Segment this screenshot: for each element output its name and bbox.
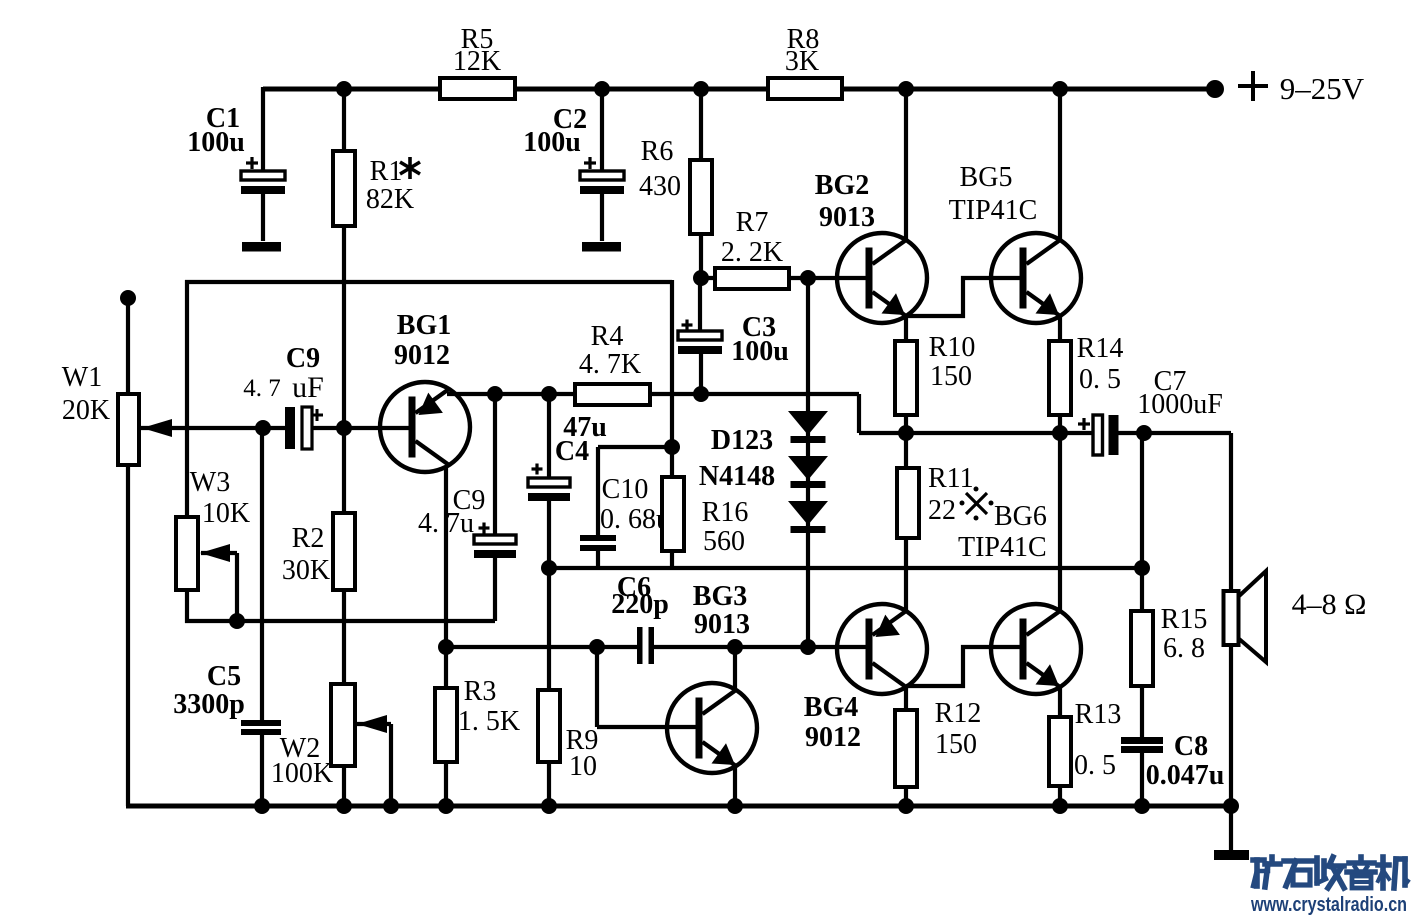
svg-text:100u: 100u — [523, 127, 581, 158]
wire R7 line to BG2 base — [701, 276, 866, 280]
label C5 value 3300p — [173, 689, 245, 720]
svg-text:www.crystalradio.cn: www.crystalradio.cn — [1250, 894, 1407, 916]
potentiometer W2 — [331, 684, 355, 766]
label R14 — [1077, 333, 1124, 364]
capacitor C5 — [241, 720, 281, 735]
svg-text:10K: 10K — [202, 498, 250, 529]
resistor R9 — [538, 690, 560, 762]
wiper arrow W3 — [200, 544, 230, 562]
wire R11 to BG4 emitter — [904, 433, 908, 612]
svg-text:82K: 82K — [366, 184, 414, 215]
label W1 — [62, 362, 102, 393]
svg-text:BG2: BG2 — [815, 170, 869, 201]
junction VAS/BG3 base — [589, 639, 605, 655]
svg-text:C8: C8 — [1174, 731, 1208, 762]
label R4 value 4.7K — [579, 349, 641, 380]
junction feedback line/C4/R9 — [541, 560, 557, 576]
wire BG4 collector to R12 — [904, 686, 908, 806]
label D123 — [711, 425, 773, 456]
label R5 — [461, 24, 494, 55]
svg-text:BG4: BG4 — [804, 692, 858, 723]
label BG5 — [960, 162, 1013, 193]
svg-text:4. 7K: 4. 7K — [579, 349, 641, 380]
label C4 — [555, 436, 589, 467]
svg-text:9012: 9012 — [394, 340, 450, 371]
label W3 value 10K — [202, 498, 250, 529]
wire input line from W1 wiper to C9 — [140, 426, 287, 430]
svg-text:R16: R16 — [702, 497, 749, 528]
svg-text:R3: R3 — [464, 676, 497, 707]
wire VAS line right — [654, 645, 866, 649]
label C6 value 220p — [611, 589, 669, 620]
junction node X/C10 — [664, 439, 680, 455]
wire C2 to ground — [600, 193, 604, 241]
label C1 value 100u — [187, 127, 245, 158]
svg-text:430: 430 — [639, 171, 681, 202]
label W2 value 100K — [271, 758, 333, 789]
label BG2 — [815, 170, 869, 201]
svg-text:12K: 12K — [453, 46, 501, 77]
junction rail/C2 — [594, 81, 610, 97]
svg-text:100u: 100u — [187, 127, 245, 158]
junction W3 wiper/feedback — [229, 613, 245, 629]
resistor R8 — [768, 78, 842, 99]
wiper arrow W1 — [142, 419, 172, 437]
junction rail/BG5 collector — [1052, 81, 1068, 97]
svg-text:9–25V: 9–25V — [1280, 71, 1365, 106]
label BG2 type 9013 — [819, 202, 875, 233]
svg-text:C5: C5 — [207, 661, 241, 692]
wire node X to C3 bottom — [672, 394, 859, 433]
ground C2 — [582, 242, 621, 252]
transistor BG2 — [837, 233, 927, 323]
svg-text:R13: R13 — [1075, 699, 1122, 730]
plus sign supply — [1238, 71, 1268, 101]
capacitor C8 — [1121, 737, 1163, 753]
svg-text:R15: R15 — [1161, 604, 1208, 635]
wire W1 bottom to ground rail — [126, 465, 130, 806]
watermark url — [1250, 894, 1407, 916]
wire W3 wiper tail — [201, 553, 237, 621]
junction emitter line/C4 — [541, 386, 557, 402]
capacitor C10 — [580, 535, 616, 551]
svg-text:150: 150 — [930, 361, 972, 392]
svg-text:1. 5K: 1. 5K — [458, 706, 520, 737]
junction ground/R13 — [1052, 798, 1068, 814]
svg-text:R1: R1 — [370, 156, 403, 187]
svg-text:BG1: BG1 — [397, 310, 451, 341]
svg-text:6. 8: 6. 8 — [1163, 633, 1205, 664]
label supply 9-25V — [1280, 71, 1365, 106]
label C10 value 0.68u — [600, 504, 670, 535]
capacitor C7 — [1078, 415, 1119, 455]
junction output rail/R14/BG6 — [1052, 425, 1068, 441]
svg-text:20K: 20K — [62, 395, 110, 426]
wire left feedback edge W3 — [185, 280, 189, 623]
wire BG6 emitter to R13 — [1058, 687, 1062, 806]
wire C10 branch — [598, 447, 672, 568]
wire VAS line left — [446, 645, 637, 649]
label R7 — [736, 207, 769, 238]
svg-text:10: 10 — [569, 751, 597, 782]
junction rail/R6 — [693, 81, 709, 97]
capacitor C2 — [580, 157, 624, 194]
wire C9 to BG1 base — [311, 426, 410, 430]
label R8 — [787, 24, 820, 55]
transistor BG1 — [380, 382, 470, 472]
label C9 input — [286, 343, 320, 374]
svg-text:100u: 100u — [731, 336, 789, 367]
label R3 — [464, 676, 497, 707]
capacitor C4 — [528, 464, 570, 502]
label W2 — [280, 733, 320, 764]
label C2 — [553, 104, 587, 135]
label C4 value 47u — [563, 412, 607, 443]
junction VAS/diodes — [800, 639, 816, 655]
label W3 — [190, 467, 230, 498]
resistor R10 — [895, 341, 917, 415]
wire BG2 emitter to BG5 base — [906, 278, 1021, 316]
resistor R11 — [897, 468, 919, 538]
label C8 value 0.047u — [1146, 760, 1225, 791]
svg-text:220p: 220p — [611, 589, 669, 620]
label C9b value 4.7u — [418, 508, 474, 539]
resistor R5 — [440, 78, 515, 99]
wire BG3 collector — [733, 647, 737, 691]
svg-text:2. 2K: 2. 2K — [721, 237, 783, 268]
svg-text:9012: 9012 — [805, 722, 861, 753]
label C9 feedback — [453, 485, 486, 516]
transistor BG3 — [667, 683, 757, 773]
svg-text:3K: 3K — [785, 46, 819, 77]
junction input/C5 — [255, 420, 271, 436]
label R6 value 430 — [639, 171, 681, 202]
svg-text:100K: 100K — [271, 758, 333, 789]
label C3 value 100u — [731, 336, 789, 367]
wire C5 branch — [260, 428, 264, 806]
label R15 — [1161, 604, 1208, 635]
svg-text:9013: 9013 — [694, 609, 750, 640]
resistor R2 — [333, 513, 355, 590]
reference mark — [960, 487, 994, 521]
svg-text:C9: C9 — [286, 343, 320, 374]
capacitor C6 — [637, 627, 654, 664]
label R8 value 3K — [785, 46, 819, 77]
label R14 value 0.5 — [1079, 364, 1121, 395]
label R7 value 2.2K — [721, 237, 783, 268]
wire BG6 collector — [1058, 433, 1062, 613]
label R13 value 0.5 — [1074, 750, 1116, 781]
wire C4-R9 column — [547, 394, 551, 806]
wire C1 to ground — [261, 193, 265, 241]
junction ground/BG3 emitter — [727, 798, 743, 814]
label R2 — [292, 523, 325, 554]
label R9 — [566, 725, 599, 756]
wire BG1 emitter line with R4 — [447, 392, 672, 396]
wire C1 branch top — [261, 87, 265, 172]
label R16 value 560 — [703, 526, 745, 557]
wire top edge to node X — [185, 280, 672, 284]
junction ground/C8 — [1134, 798, 1150, 814]
label BG1 — [397, 310, 451, 341]
svg-text:R4: R4 — [591, 321, 624, 352]
label N4148 — [699, 461, 775, 492]
label R10 — [929, 332, 976, 363]
wire ground rail — [126, 804, 1232, 809]
label R11 — [928, 463, 974, 494]
label C2 value 100u — [523, 127, 581, 158]
potentiometer W3 — [176, 517, 198, 590]
label C10 — [602, 474, 649, 505]
label BG4 — [804, 692, 858, 723]
speaker — [1224, 571, 1267, 662]
junction ground/R3 — [438, 798, 454, 814]
svg-text:R6: R6 — [641, 136, 674, 167]
wire W2 wiper tail — [357, 724, 391, 806]
label BG3 — [693, 581, 747, 612]
svg-text:R10: R10 — [929, 332, 976, 363]
potentiometer W1 — [118, 394, 139, 465]
junction ground/speaker — [1223, 798, 1239, 814]
junction ground/W2 — [336, 798, 352, 814]
capacitor C3 — [678, 320, 722, 355]
wire R6-C3 column — [700, 89, 701, 394]
svg-text:C4: C4 — [555, 436, 589, 467]
svg-text:150: 150 — [935, 729, 977, 760]
wire BG3 emitter — [733, 765, 737, 806]
label BG6 type TIP41C — [958, 532, 1047, 563]
label R10 value 150 — [930, 361, 972, 392]
wire C2 branch top — [600, 87, 604, 172]
ground C1 — [242, 242, 281, 252]
capacitor C9 feedback — [474, 523, 516, 559]
label R3 value 1.5K — [458, 706, 520, 737]
label BG5 type TIP41C — [949, 195, 1038, 226]
junction ground/R12 — [898, 798, 914, 814]
label R11 value 22 — [928, 495, 956, 526]
svg-text:30K: 30K — [282, 555, 330, 586]
svg-text:R14: R14 — [1077, 333, 1124, 364]
wire BG2 collector — [904, 89, 908, 241]
junction VAS/BG3 collector — [727, 639, 743, 655]
svg-text:BG3: BG3 — [693, 581, 747, 612]
junction ground/W2 wiper — [383, 798, 399, 814]
junction R7/BG2 base/diodes — [800, 270, 816, 286]
capacitor C1 — [241, 157, 285, 194]
wire diode chain column — [806, 278, 810, 647]
svg-text:0. 5: 0. 5 — [1079, 364, 1121, 395]
resistor R15 — [1131, 611, 1153, 686]
junction BG1 base/R1/R2 — [336, 420, 352, 436]
label R2 value 30K — [282, 555, 330, 586]
svg-text:4. 7: 4. 7 — [243, 375, 281, 402]
label R4 — [591, 321, 624, 352]
resistor R1 — [333, 151, 355, 226]
wire BG5 collector — [1058, 89, 1062, 241]
svg-text:R7: R7 — [736, 207, 769, 238]
junction feedback line/output — [1134, 560, 1150, 576]
junction VAS/BG1 collector/R3 — [438, 639, 454, 655]
wiper arrow W2 — [357, 715, 387, 733]
junction output rail/C7/R15 — [1136, 425, 1152, 441]
label C6 — [617, 572, 651, 603]
wire C9b to bottom line — [493, 556, 497, 621]
wire node X column — [670, 280, 674, 568]
svg-text:uF: uF — [292, 371, 324, 404]
junction emitter line/C9b — [487, 386, 503, 402]
junction R6/R7/C3 — [693, 270, 709, 286]
wire W1 top terminal — [126, 298, 130, 394]
junction rail/BG2 collector — [898, 81, 914, 97]
wire R1-R2-W2 column — [342, 89, 346, 806]
label R12 value 150 — [935, 729, 977, 760]
asterisk R1 — [400, 157, 420, 179]
svg-text:1000uF: 1000uF — [1137, 389, 1223, 420]
junction bootstrap/C3 — [693, 386, 709, 402]
label speaker 4-8 ohm — [1292, 588, 1367, 621]
resistor R3 — [435, 688, 457, 762]
wire BG4 collector to BG6 base — [906, 647, 1021, 686]
resistor R13 — [1049, 717, 1071, 786]
terminal node W1 top — [120, 290, 136, 306]
wire feedback bottom line — [185, 619, 495, 623]
wire +V top rail — [263, 87, 1215, 92]
label R12 — [935, 698, 982, 729]
label C9 value 4.7uF — [243, 371, 324, 404]
watermark crystalradio logo — [1253, 857, 1408, 888]
svg-text:BG5: BG5 — [960, 162, 1013, 193]
label R5 value 12K — [453, 46, 501, 77]
label R16 — [702, 497, 749, 528]
svg-text:W1: W1 — [62, 362, 102, 393]
wire output node to R15 — [1140, 433, 1144, 806]
svg-text:R12: R12 — [935, 698, 982, 729]
svg-text:BG6: BG6 — [994, 501, 1047, 532]
junction ground/R9 — [541, 798, 557, 814]
label R9 value 10 — [569, 751, 597, 782]
label R13 — [1075, 699, 1122, 730]
label C3 — [742, 312, 776, 343]
power terminal +9-25V — [1206, 80, 1224, 98]
svg-text:4–8 Ω: 4–8 Ω — [1292, 588, 1367, 621]
wire C9b to emitter line — [493, 394, 497, 536]
junction output rail/R10/R11 — [898, 425, 914, 441]
svg-text:560: 560 — [703, 526, 745, 557]
wire speaker to ground — [1229, 644, 1233, 853]
label C8 — [1174, 731, 1208, 762]
label R1 — [370, 156, 403, 187]
capacitor C9 input — [285, 407, 323, 449]
resistor R12 — [895, 710, 917, 787]
label C1 — [206, 103, 240, 134]
transistor BG4 — [837, 604, 927, 694]
label BG3 type 9013 — [694, 609, 750, 640]
wire BG3 base drop — [597, 647, 696, 727]
svg-text:TIP41C: TIP41C — [958, 532, 1047, 563]
wire feedback line to output — [549, 566, 1142, 570]
svg-text:TIP41C: TIP41C — [949, 195, 1038, 226]
svg-text:9013: 9013 — [819, 202, 875, 233]
label R15 value 6.8 — [1163, 633, 1205, 664]
resistor R14 — [1049, 341, 1071, 415]
label C7 — [1154, 366, 1187, 397]
label C5 — [207, 661, 241, 692]
label BG4 type 9012 — [805, 722, 861, 753]
wire C7 right to speaker corner — [1118, 433, 1231, 592]
wire BG5 emitter to R14 — [1058, 316, 1062, 433]
label C7 value 1000uF — [1137, 389, 1223, 420]
svg-text:R11: R11 — [928, 463, 974, 494]
svg-text:D123: D123 — [711, 425, 773, 456]
wire BG2 emitter to R10 — [904, 316, 908, 433]
diode chain D123 N4148 — [788, 411, 828, 533]
label W1 value 20K — [62, 395, 110, 426]
resistor R6 — [690, 160, 712, 234]
label BG6 — [994, 501, 1047, 532]
wire output rail — [859, 431, 1094, 435]
label BG1 type 9012 — [394, 340, 450, 371]
svg-text:22: 22 — [928, 495, 956, 526]
svg-text:0.047u: 0.047u — [1146, 760, 1225, 791]
wire BG1 collector to R3 — [444, 466, 448, 806]
svg-text:4. 7u: 4. 7u — [418, 508, 474, 539]
label R1 value 82K — [366, 184, 414, 215]
label R6 — [641, 136, 674, 167]
svg-text:N4148: N4148 — [699, 461, 775, 492]
ground speaker — [1214, 850, 1249, 860]
junction rail/R1 — [336, 81, 352, 97]
svg-text:0. 68u: 0. 68u — [600, 504, 670, 535]
resistor R16 — [662, 477, 684, 551]
transistor BG6 — [991, 604, 1081, 694]
svg-text:W3: W3 — [190, 467, 230, 498]
svg-text:3300p: 3300p — [173, 689, 245, 720]
svg-text:0. 5: 0. 5 — [1074, 750, 1116, 781]
junction ground/C5 — [254, 798, 270, 814]
svg-text:R2: R2 — [292, 523, 325, 554]
resistor R7 — [715, 268, 789, 289]
transistor BG5 — [991, 233, 1081, 323]
svg-text:C10: C10 — [602, 474, 649, 505]
resistor R4 — [575, 384, 650, 405]
